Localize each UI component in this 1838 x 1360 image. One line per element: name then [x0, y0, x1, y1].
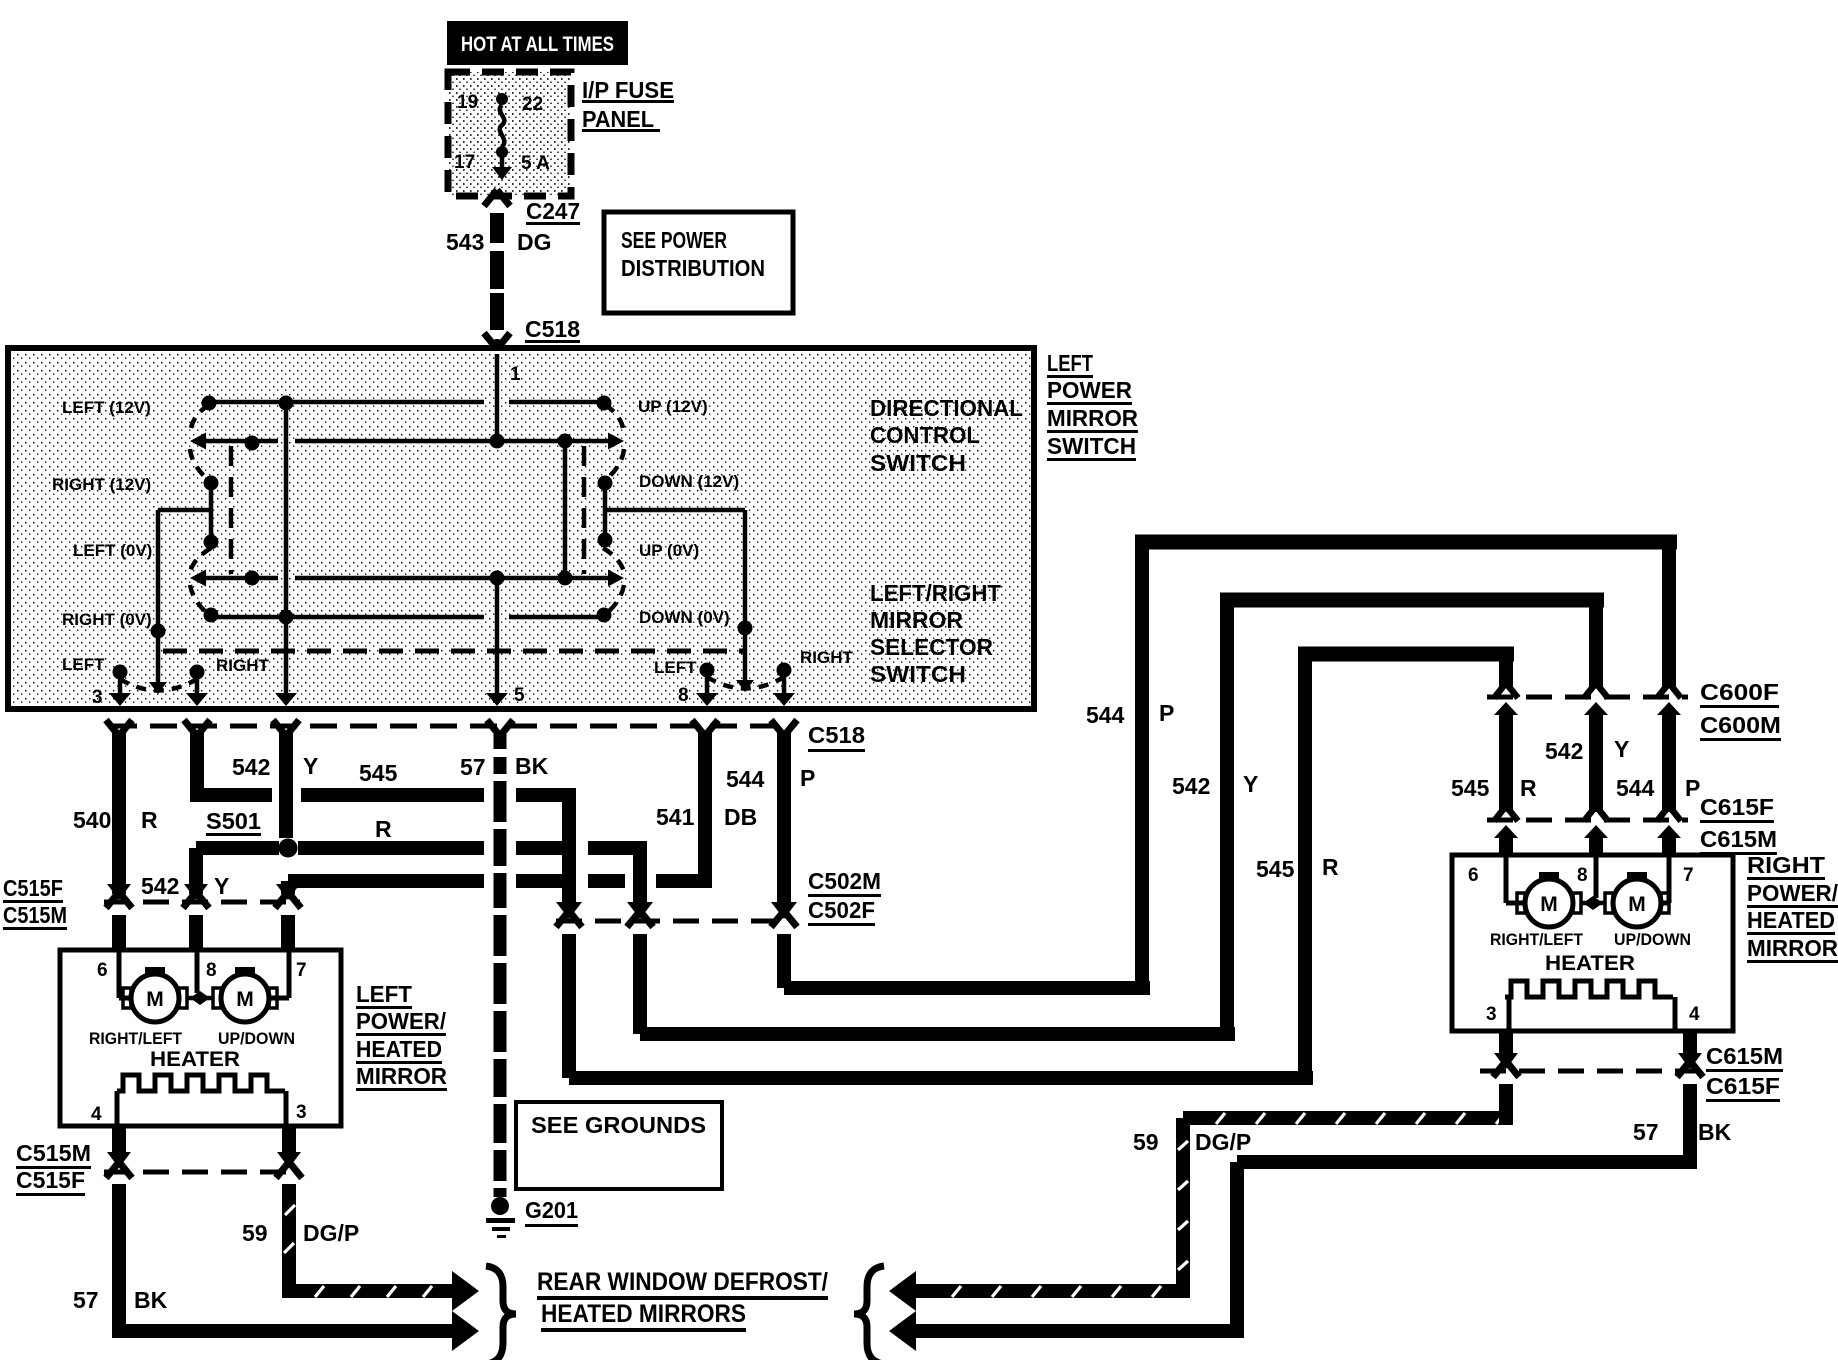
svg-text:RIGHT: RIGHT	[800, 648, 854, 667]
svg-text:545: 545	[1256, 856, 1295, 882]
svg-text:3: 3	[92, 687, 103, 708]
svg-text:RIGHT: RIGHT	[1747, 852, 1825, 878]
svg-text:C518: C518	[525, 316, 580, 342]
svg-text:DIRECTIONAL: DIRECTIONAL	[870, 395, 1023, 421]
svg-text:LEFT: LEFT	[654, 658, 697, 677]
svg-text:RIGHT/LEFT: RIGHT/LEFT	[1490, 930, 1584, 949]
svg-text:BK: BK	[1698, 1119, 1732, 1145]
svg-text:C615M: C615M	[1700, 826, 1777, 852]
svg-text:57: 57	[73, 1287, 99, 1313]
svg-text:UP (12V): UP (12V)	[638, 397, 708, 416]
svg-text:I/P FUSE: I/P FUSE	[582, 77, 674, 103]
svg-text:SELECTOR: SELECTOR	[870, 634, 993, 660]
svg-text:541: 541	[656, 804, 695, 830]
svg-text:544: 544	[726, 766, 765, 792]
svg-text:DG/P: DG/P	[303, 1220, 359, 1246]
svg-text:C515M: C515M	[16, 1140, 91, 1166]
svg-text:C518: C518	[808, 722, 865, 748]
svg-text:R: R	[141, 807, 158, 833]
svg-text:DG: DG	[517, 229, 552, 255]
svg-text:6: 6	[97, 960, 108, 981]
svg-text:S501: S501	[206, 808, 261, 834]
svg-text:P: P	[1159, 700, 1174, 726]
svg-text:8: 8	[678, 685, 689, 706]
svg-text:BK: BK	[515, 753, 549, 779]
svg-text:G201: G201	[525, 1197, 578, 1223]
svg-text:545: 545	[1451, 775, 1490, 801]
svg-text:HEATER: HEATER	[150, 1048, 240, 1071]
svg-text:C600M: C600M	[1700, 712, 1781, 738]
svg-text:57: 57	[460, 754, 486, 780]
svg-text:8: 8	[1577, 865, 1588, 886]
svg-text:7: 7	[296, 960, 307, 981]
svg-text:22: 22	[522, 94, 543, 115]
svg-text:1: 1	[510, 364, 521, 385]
svg-text:HOT AT ALL TIMES: HOT AT ALL TIMES	[461, 33, 614, 56]
svg-text:Y: Y	[214, 873, 229, 899]
svg-text:DOWN (12V): DOWN (12V)	[639, 472, 739, 491]
svg-text:542: 542	[1172, 773, 1210, 799]
svg-text:PANEL: PANEL	[582, 106, 654, 132]
svg-text:UP/DOWN: UP/DOWN	[218, 1029, 295, 1048]
svg-text:540: 540	[73, 807, 111, 833]
svg-text:17: 17	[454, 152, 475, 173]
svg-text:R: R	[1520, 775, 1537, 801]
svg-text:19: 19	[457, 92, 478, 113]
svg-text:DB: DB	[724, 804, 757, 830]
svg-text:POWER: POWER	[1047, 377, 1132, 403]
svg-text:C502F: C502F	[808, 897, 875, 923]
svg-text:RIGHT (0V): RIGHT (0V)	[62, 610, 152, 629]
svg-text:DG/P: DG/P	[1195, 1129, 1251, 1155]
svg-text:LEFT: LEFT	[62, 655, 105, 674]
svg-text:LEFT (12V): LEFT (12V)	[62, 398, 151, 417]
svg-text:HEATED: HEATED	[1747, 907, 1835, 933]
svg-text:SWITCH: SWITCH	[870, 661, 966, 687]
svg-text:M: M	[146, 988, 164, 1011]
svg-text:C515M: C515M	[3, 902, 67, 928]
svg-text:57: 57	[1633, 1119, 1659, 1145]
svg-text:542: 542	[141, 873, 179, 899]
svg-text:HEATED: HEATED	[356, 1036, 442, 1062]
svg-text:C502M: C502M	[808, 868, 881, 894]
svg-text:UP (0V): UP (0V)	[639, 541, 699, 560]
svg-text:7: 7	[1683, 865, 1694, 886]
svg-text:5: 5	[514, 685, 525, 706]
svg-text:544: 544	[1616, 775, 1655, 801]
svg-text:4: 4	[1689, 1004, 1700, 1025]
svg-text:BK: BK	[134, 1287, 168, 1313]
svg-text:LEFT/RIGHT: LEFT/RIGHT	[870, 580, 1001, 606]
svg-text:HEATER: HEATER	[1545, 952, 1635, 975]
svg-text:RIGHT (12V): RIGHT (12V)	[52, 475, 151, 494]
svg-text:P: P	[800, 765, 815, 791]
svg-text:DISTRIBUTION: DISTRIBUTION	[621, 255, 765, 281]
svg-text:R: R	[375, 816, 392, 842]
svg-text:LEFT: LEFT	[1047, 350, 1093, 376]
svg-text:RIGHT/LEFT: RIGHT/LEFT	[89, 1029, 183, 1048]
svg-text:C515F: C515F	[3, 875, 63, 901]
svg-text:REAR WINDOW DEFROST/: REAR WINDOW DEFROST/	[537, 1268, 828, 1296]
svg-text:DOWN (0V): DOWN (0V)	[639, 608, 730, 627]
svg-text:3: 3	[296, 1102, 307, 1123]
svg-text:M: M	[1540, 893, 1558, 916]
svg-text:POWER/: POWER/	[1747, 880, 1838, 906]
svg-text:UP/DOWN: UP/DOWN	[1614, 930, 1691, 949]
svg-text:MIRROR: MIRROR	[356, 1063, 447, 1089]
svg-text:8: 8	[206, 960, 217, 981]
svg-text:5 A: 5 A	[521, 153, 550, 174]
svg-text:59: 59	[242, 1220, 268, 1246]
svg-text:3: 3	[1486, 1004, 1497, 1025]
svg-text:59: 59	[1133, 1129, 1159, 1155]
svg-text:R: R	[1322, 854, 1339, 880]
svg-text:C247: C247	[526, 198, 580, 224]
svg-text:M: M	[1628, 893, 1646, 916]
svg-text:LEFT (0V): LEFT (0V)	[73, 541, 152, 560]
svg-text:Y: Y	[303, 753, 318, 779]
svg-text:POWER/: POWER/	[356, 1008, 447, 1034]
svg-text:CONTROL: CONTROL	[870, 422, 980, 448]
svg-text:SEE POWER: SEE POWER	[621, 227, 727, 253]
svg-text:Y: Y	[1243, 771, 1258, 797]
svg-text:SWITCH: SWITCH	[1047, 433, 1136, 459]
svg-text:C600F: C600F	[1700, 679, 1779, 705]
svg-text:MIRROR: MIRROR	[870, 607, 963, 633]
svg-text:542: 542	[232, 754, 270, 780]
svg-text:545: 545	[359, 760, 398, 786]
svg-text:HEATED MIRRORS: HEATED MIRRORS	[541, 1300, 746, 1328]
svg-text:MIRROR: MIRROR	[1047, 405, 1138, 431]
svg-text:C615F: C615F	[1700, 794, 1774, 820]
svg-text:SEE GROUNDS: SEE GROUNDS	[531, 1112, 706, 1138]
svg-text:542: 542	[1545, 738, 1583, 764]
svg-text:4: 4	[91, 1104, 102, 1125]
svg-text:543: 543	[446, 229, 484, 255]
svg-text:544: 544	[1086, 702, 1125, 728]
svg-text:C615F: C615F	[1706, 1073, 1780, 1099]
svg-text:M: M	[236, 988, 254, 1011]
svg-text:C515F: C515F	[16, 1167, 85, 1193]
svg-text:P: P	[1685, 775, 1700, 801]
svg-text:6: 6	[1468, 865, 1479, 886]
svg-text:LEFT: LEFT	[356, 981, 412, 1007]
svg-text:SWITCH: SWITCH	[870, 450, 966, 476]
svg-text:C615M: C615M	[1706, 1043, 1783, 1069]
svg-text:RIGHT: RIGHT	[216, 656, 270, 675]
svg-text:MIRROR: MIRROR	[1747, 935, 1838, 961]
svg-text:Y: Y	[1614, 736, 1629, 762]
